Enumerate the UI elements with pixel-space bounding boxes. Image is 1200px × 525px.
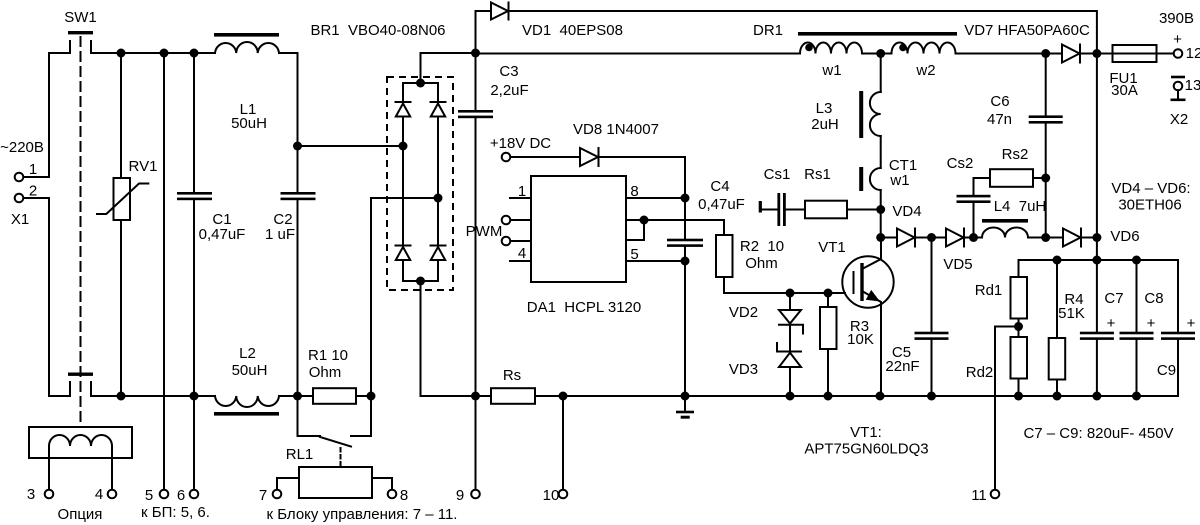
diode VD6 — [1046, 228, 1140, 247]
op-amp U1 driver DA1 HCPL3120 box — [527, 176, 642, 316]
svg-text:VD1 40EPS08: VD1 40EPS08 — [522, 22, 623, 39]
svg-text:VD4 – VD6:: VD4 – VD6: — [1111, 180, 1190, 197]
node pin5/C4 — [681, 257, 690, 266]
resistor R1 — [308, 347, 371, 404]
diode BR1 D1 (upper left) — [396, 83, 411, 146]
node C2/BR1 tap — [293, 142, 302, 151]
wire AC1 down — [402, 146, 404, 246]
wire output cap bus — [1019, 259, 1179, 261]
terminal 7 — [273, 490, 282, 499]
node bridge minus — [416, 277, 425, 286]
svg-text:X2: X2 — [1170, 111, 1188, 128]
transformer DR1 core — [798, 32, 957, 36]
svg-text:L4 7uH: L4 7uH — [994, 198, 1047, 215]
svg-text:4: 4 — [518, 245, 526, 262]
wire w2 to VD7 — [956, 53, 1046, 55]
svg-text:BR1 VBO40-08N06: BR1 VBO40-08N06 — [310, 22, 445, 39]
svg-text:+: + — [1107, 315, 1116, 332]
wire L1 to C2 corner — [279, 53, 298, 192]
svg-text:0,47uF: 0,47uF — [199, 226, 246, 243]
svg-text:PWM: PWM — [466, 223, 503, 240]
svg-text:50uH: 50uH — [232, 362, 268, 379]
svg-text:DA1 HCPL 3120: DA1 HCPL 3120 — [527, 299, 642, 316]
capacitor C1 — [177, 53, 245, 396]
svg-text:47n: 47n — [987, 111, 1012, 128]
terminal +18V DC — [490, 135, 551, 161]
node collector / VD4 — [876, 233, 885, 242]
wire ground rail — [563, 395, 1178, 397]
svg-text:C9: C9 — [1157, 362, 1176, 379]
svg-text:4: 4 — [95, 486, 103, 503]
wire top bus VD1 to right — [509, 11, 1097, 54]
diode BR1 D4 (lower right) — [431, 198, 446, 281]
svg-text:RV1: RV1 — [129, 158, 158, 175]
diode VD4 — [881, 203, 932, 247]
svg-text:~220В: ~220В — [0, 139, 44, 156]
switch SW1 (lower pole) — [68, 373, 93, 397]
node transformer center tap — [876, 49, 885, 58]
node C7 ground — [1092, 392, 1101, 401]
svg-text:L3: L3 — [816, 100, 833, 117]
svg-text:1 uF: 1 uF — [265, 226, 295, 243]
svg-text:3: 3 — [27, 486, 35, 503]
terminal 11 — [991, 490, 1000, 499]
node Rd2 ground — [1014, 392, 1023, 401]
svg-text:8: 8 — [630, 183, 638, 200]
svg-text:5: 5 — [145, 487, 153, 504]
svg-text:C8: C8 — [1144, 290, 1163, 307]
svg-text:Rs: Rs — [503, 367, 521, 384]
pin 3 (cathode input) — [502, 237, 531, 246]
node bridge AC1 — [399, 142, 408, 151]
wire terminal 5 column — [163, 53, 165, 490]
resistor R3 — [820, 293, 874, 396]
resistor Rs1 — [804, 166, 881, 218]
svg-text:+: + — [1173, 31, 1182, 48]
node bus / C7 — [1092, 256, 1101, 265]
svg-text:Ohm: Ohm — [309, 364, 342, 381]
diode VD5 — [932, 229, 974, 274]
node VT1 emitter ground — [876, 392, 885, 401]
capacitor C7 — [1080, 260, 1124, 396]
node bridge top — [416, 79, 425, 88]
svg-text:APT75GN60LDQ3: APT75GN60LDQ3 — [804, 441, 928, 458]
node RV1 bottom — [117, 392, 126, 401]
svg-text:w1: w1 — [821, 62, 841, 79]
node C8 ground — [1132, 392, 1141, 401]
svg-text:к Блоку управления: 7 – 11.: к Блоку управления: 7 – 11. — [267, 506, 458, 523]
node terminal5 tap — [160, 49, 169, 58]
svg-text:50uH: 50uH — [231, 115, 267, 132]
wire top AC rail — [91, 52, 215, 54]
node R3 ground — [824, 392, 833, 401]
resistor Rd2 — [966, 337, 1027, 396]
node C5 tap — [927, 233, 936, 242]
svg-text:2,2uF: 2,2uF — [490, 82, 528, 99]
svg-text:30ETH06: 30ETH06 — [1118, 197, 1181, 214]
svg-text:2uH: 2uH — [811, 116, 839, 133]
pin 5 (Vee) — [626, 246, 685, 263]
capacitor C5 — [885, 238, 948, 397]
node C5 ground — [927, 392, 936, 401]
node divider mid — [1014, 322, 1023, 331]
svg-text:C7: C7 — [1104, 290, 1123, 307]
node pin8/C4 — [681, 194, 690, 203]
svg-text:C4: C4 — [710, 178, 729, 195]
svg-text:7: 7 — [259, 487, 267, 504]
node VD2 gate tap — [786, 289, 795, 298]
ground — [676, 396, 694, 419]
node C1 bottom / terminal6 — [190, 392, 199, 401]
wire R1 to bridge AC2 — [371, 198, 438, 396]
wire terminal 7 — [277, 478, 299, 490]
svg-text:9: 9 — [456, 487, 464, 504]
SW1 gang dashed link — [80, 37, 82, 426]
node C2 bottom / relay tap — [293, 392, 302, 401]
svg-text:w1: w1 — [889, 172, 909, 189]
node ground tie — [681, 392, 690, 401]
wire bridge top to plus node — [403, 53, 476, 83]
svg-text:8: 8 — [400, 487, 408, 504]
wire w1 to center node — [862, 53, 892, 55]
wire L2 to R1 — [279, 395, 313, 397]
node L4 / C6 column — [1041, 233, 1050, 242]
relay option coil (Опция) — [29, 427, 132, 523]
svg-text:VD6: VD6 — [1110, 228, 1139, 245]
switch SW1 (upper pole) — [64, 9, 97, 53]
pin 2 (anode input) — [502, 216, 531, 225]
node R1 right — [367, 392, 376, 401]
wire Rs2 node to L4 — [1045, 178, 1047, 238]
svg-text:30A: 30A — [1111, 82, 1138, 99]
svg-text:+18V DC: +18V DC — [490, 135, 551, 152]
svg-text:10K: 10K — [847, 331, 874, 348]
svg-text:Опция: Опция — [58, 506, 103, 523]
wire terminal 6 drop — [193, 396, 195, 490]
wire center tap down / collector riser — [880, 54, 882, 93]
node ground rail / C3 / terminal9 — [471, 392, 480, 401]
resistor Rd1 — [975, 260, 1027, 337]
wire VD8 to Vcc column — [599, 157, 686, 238]
svg-text:SW1: SW1 — [64, 9, 97, 26]
svg-text:R1 10: R1 10 — [308, 347, 348, 364]
pin 4 — [510, 245, 531, 262]
node terminal 10 tap — [559, 392, 568, 401]
node bus / R4 — [1053, 256, 1062, 265]
pin 8 (Vcc) — [626, 183, 685, 200]
svg-text:VD8 1N4007: VD8 1N4007 — [573, 121, 659, 138]
diode VD8 — [511, 121, 659, 166]
wire to bridge AC1 — [298, 145, 404, 147]
svg-text:5: 5 — [630, 246, 638, 263]
node bridge AC2 — [434, 194, 443, 203]
svg-text:Ohm: Ohm — [745, 255, 778, 272]
svg-text:390В: 390В — [1159, 10, 1194, 27]
wire plus node to transformer w1 — [476, 53, 801, 55]
wire bridge minus to ground rail — [421, 281, 476, 396]
svg-text:VT1: VT1 — [818, 239, 846, 256]
terminal 13 chassis X2 — [1170, 76, 1200, 128]
svg-text:VD3: VD3 — [729, 361, 758, 378]
node Rs2 / C6 — [1041, 174, 1050, 183]
inductor L4 — [974, 198, 1047, 238]
capacitor C3 — [458, 53, 529, 396]
zener VD2 — [729, 293, 803, 352]
terminal 3 — [45, 490, 54, 499]
capacitor Cs2 — [947, 155, 991, 238]
inductor L3 — [811, 91, 880, 138]
node VD7 out / top bus — [1092, 49, 1101, 58]
diode VD7 — [964, 22, 1097, 63]
relay contact RL1 — [286, 396, 371, 467]
svg-text:L2: L2 — [239, 345, 256, 362]
svg-text:VD4: VD4 — [892, 203, 921, 220]
wire terminal 9 drop — [475, 396, 477, 490]
pin 7 output — [626, 219, 644, 221]
capacitor C9 — [1157, 260, 1196, 396]
varistor RV1 — [97, 53, 157, 396]
terminal 4 — [108, 490, 117, 499]
svg-text:C6: C6 — [990, 93, 1009, 110]
transformer DR1 winding w1 — [800, 43, 862, 80]
svg-text:C3: C3 — [499, 63, 518, 80]
terminal 6 — [190, 490, 199, 499]
resistor R2 — [716, 235, 845, 293]
capacitor C6 — [987, 54, 1063, 179]
wire divider to terminal 11 — [995, 327, 1019, 490]
terminal 5 — [160, 490, 169, 499]
svg-text:+: + — [1187, 315, 1196, 332]
node R3 gate tap — [824, 289, 833, 298]
svg-text:10: 10 — [543, 487, 560, 504]
wire driver output to R2 — [644, 220, 724, 235]
svg-text:Rd2: Rd2 — [966, 364, 994, 381]
connector X1 — [0, 139, 44, 228]
svg-text:C7 – C9: 820uF- 450V: C7 – C9: 820uF- 450V — [1023, 425, 1173, 442]
wire lower AC rail — [91, 395, 215, 397]
resistor Rs2 — [990, 146, 1046, 187]
svg-text:11: 11 — [971, 487, 987, 504]
transformer DR1 winding w2 — [892, 43, 956, 80]
terminal 8 — [388, 490, 397, 499]
pin 1 — [510, 183, 531, 200]
terminal 10 — [559, 490, 568, 499]
svg-text:R2 10: R2 10 — [740, 238, 784, 255]
node plus junction — [471, 49, 480, 58]
terminal 9 — [471, 490, 480, 499]
fuse FU1 — [1097, 45, 1174, 99]
svg-text:RL1: RL1 — [286, 446, 314, 463]
diode VD1 — [476, 3, 623, 54]
node bus / C8 — [1132, 256, 1141, 265]
svg-text:2: 2 — [29, 183, 37, 200]
node VD6 out bus — [1092, 233, 1101, 242]
svg-text:1: 1 — [518, 183, 526, 200]
zener VD3 — [729, 343, 801, 396]
svg-text:Rs2: Rs2 — [1002, 146, 1029, 163]
resistor R4 — [1049, 260, 1085, 396]
svg-text:22nF: 22nF — [885, 358, 919, 375]
node pin6/7 tie — [640, 216, 649, 225]
bridge rectifier BR1 dashed outline — [387, 77, 453, 290]
pin 6 tie wire — [626, 220, 644, 240]
terminal 12 — [1159, 10, 1200, 62]
svg-text:Cs1: Cs1 — [764, 166, 791, 183]
transistor Q1 VT1 IGBT — [818, 238, 893, 397]
svg-text:Rd1: Rd1 — [975, 282, 1003, 299]
svg-text:w2: w2 — [915, 62, 935, 79]
inductor L1 — [214, 33, 279, 132]
wire X1 pin1 to switch SW1 — [24, 53, 71, 177]
node Cs2 tap — [969, 233, 978, 242]
wire terminal 8 — [372, 478, 392, 490]
wire right bus down — [1096, 54, 1098, 261]
svg-text:0,47uF: 0,47uF — [698, 196, 745, 213]
wire terminal 10 drop — [562, 396, 564, 490]
node VD3 ground — [786, 392, 795, 401]
relay coil RL1 box — [299, 467, 372, 498]
svg-text:13: 13 — [1185, 77, 1200, 94]
wire bridge bottom — [403, 280, 438, 282]
capacitor C4 — [667, 178, 745, 261]
capacitor C2 — [265, 192, 316, 396]
node R4 ground — [1053, 392, 1062, 401]
svg-text:DR1: DR1 — [753, 22, 783, 39]
diode BR1 D3 (lower left) — [396, 246, 411, 282]
capacitor C8 — [1120, 260, 1164, 396]
node C6 tap — [1041, 49, 1050, 58]
capacitor Cs1 — [759, 166, 805, 226]
svg-text:VD7 HFA50PA60C: VD7 HFA50PA60C — [964, 22, 1090, 39]
svg-text:1: 1 — [29, 161, 37, 178]
wire pin5 to ground rail — [684, 261, 686, 396]
svg-text:X1: X1 — [11, 211, 29, 228]
wire CT1 to collector node — [880, 190, 882, 238]
svg-text:51K: 51K — [1058, 305, 1085, 322]
svg-text:+: + — [1147, 315, 1156, 332]
node Rs1 / riser — [876, 205, 885, 214]
svg-text:к БП: 5, 6.: к БП: 5, 6. — [141, 504, 210, 521]
wire L3 to CT1 — [880, 136, 882, 168]
svg-text:Rs1: Rs1 — [804, 166, 831, 183]
resistor Rs (shunt) — [476, 367, 564, 404]
diode BR1 D2 (upper right) — [431, 83, 446, 198]
wire X1 pin2 to lower rail — [24, 198, 71, 396]
node C1 top — [190, 49, 199, 58]
current transformer CT1 w1 — [859, 157, 917, 191]
svg-text:Cs2: Cs2 — [947, 155, 974, 172]
inductor L2 — [214, 345, 279, 416]
svg-text:12: 12 — [1186, 45, 1200, 62]
svg-text:VT1:: VT1: — [850, 424, 882, 441]
svg-text:VD2: VD2 — [729, 304, 758, 321]
svg-text:VD5: VD5 — [943, 256, 972, 273]
node RV1 top — [117, 49, 126, 58]
svg-text:6: 6 — [177, 487, 185, 504]
